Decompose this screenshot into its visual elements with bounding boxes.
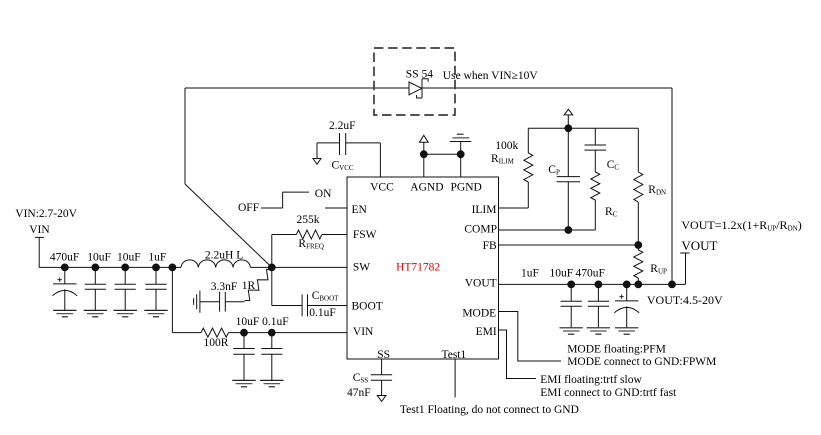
ground bbox=[260, 380, 283, 386]
svg-text:VIN: VIN bbox=[29, 224, 50, 236]
wire lower-left branch vertical bbox=[171, 267, 173, 332]
wire VOUT rail bbox=[499, 283, 686, 285]
wire PGND stub bbox=[460, 142, 462, 178]
wire top rail right of diode bbox=[422, 87, 672, 89]
terminal VOUT bbox=[680, 253, 689, 284]
svg-text:1uF: 1uF bbox=[148, 251, 166, 263]
node VOUT rail 3 bbox=[623, 281, 630, 288]
wire FSW pin stub bbox=[322, 234, 347, 236]
ground bbox=[232, 380, 255, 386]
svg-text:VOUT: VOUT bbox=[465, 278, 497, 290]
svg-text:OFF: OFF bbox=[238, 202, 259, 214]
node VOUT rail 2 bbox=[595, 281, 602, 288]
svg-text:100R: 100R bbox=[204, 337, 229, 349]
wire lower rail left bbox=[172, 332, 201, 334]
ground bbox=[587, 328, 610, 334]
resistor RILIM 100k bbox=[524, 128, 533, 208]
wire top rail left of diode bbox=[185, 87, 409, 89]
wire diagonal to SW node bbox=[185, 184, 272, 267]
svg-text:47nF: 47nF bbox=[347, 387, 371, 399]
capacitor C10 470uF output electrolytic bbox=[614, 284, 639, 327]
svg-text:VOUT=1.2x(1+RUP/RDN): VOUT=1.2x(1+RUP/RDN) bbox=[681, 218, 801, 233]
wire input rail bbox=[39, 266, 181, 268]
wire AGND-PGND link bbox=[424, 153, 461, 155]
wire AGND stub bbox=[423, 154, 425, 177]
svg-text:SS 54: SS 54 bbox=[406, 68, 433, 80]
svg-text:1uF: 1uF bbox=[521, 268, 539, 280]
svg-text:1R: 1R bbox=[242, 280, 256, 292]
svg-text:SW: SW bbox=[353, 261, 370, 273]
node VIN filter 2 bbox=[268, 329, 275, 336]
svg-text:ON: ON bbox=[315, 188, 332, 200]
node FB bbox=[635, 242, 642, 249]
capacitor C4 1uF bbox=[145, 267, 166, 310]
node input rail junction 1 bbox=[61, 264, 68, 271]
diode D1 SS54 schottky bbox=[409, 79, 428, 98]
svg-text:10uF 0.1uF: 10uF 0.1uF bbox=[236, 316, 289, 328]
capacitor CSS 47nF bbox=[371, 375, 392, 396]
node VIN filter 1 bbox=[241, 329, 248, 336]
wire SW rail bbox=[250, 266, 347, 268]
node COMP-CP bbox=[565, 227, 572, 234]
svg-text:0.1uF: 0.1uF bbox=[309, 307, 336, 319]
IC U1 HT71782 body bbox=[347, 177, 499, 359]
wire FB pin bbox=[499, 244, 639, 246]
svg-text:FSW: FSW bbox=[353, 229, 377, 241]
ground bbox=[615, 328, 638, 334]
svg-text:255k: 255k bbox=[297, 214, 320, 226]
svg-text:EMI connect to GND:trtf fast: EMI connect to GND:trtf fast bbox=[540, 387, 677, 399]
ground bbox=[84, 310, 107, 316]
wire COMP pin bbox=[499, 229, 596, 231]
node VOUT sense bbox=[565, 125, 572, 132]
svg-text:MODE: MODE bbox=[462, 307, 496, 319]
resistor R2 1R snubber bbox=[245, 269, 272, 300]
svg-text:3.3nF: 3.3nF bbox=[211, 281, 238, 293]
capacitor C8 1uF output bbox=[561, 284, 582, 327]
wire Testl stub bbox=[454, 359, 456, 397]
wire SS stub bbox=[381, 359, 383, 375]
svg-text:ILIM: ILIM bbox=[472, 204, 497, 216]
node VOUT rail 1 bbox=[568, 281, 575, 288]
svg-text:2.2uF: 2.2uF bbox=[329, 120, 356, 132]
ground sideways (snubber) bbox=[194, 291, 200, 313]
VIN terminal bbox=[35, 237, 44, 267]
svg-text:Test1 Floating, do not connect: Test1 Floating, do not connect to GND bbox=[400, 404, 579, 416]
svg-text:VCC: VCC bbox=[370, 181, 394, 193]
svg-text:EMI: EMI bbox=[476, 326, 497, 338]
node RUP bottom bbox=[635, 281, 642, 288]
capacitor C2 10uF bbox=[85, 267, 106, 310]
svg-text:100k: 100k bbox=[495, 140, 518, 152]
svg-text:VIN: VIN bbox=[353, 326, 374, 338]
svg-text:10uF: 10uF bbox=[550, 268, 574, 280]
svg-text:10uF: 10uF bbox=[117, 251, 141, 263]
node input rail junction 4 bbox=[153, 264, 160, 271]
svg-text:10uF: 10uF bbox=[87, 251, 111, 263]
node inductor input bbox=[169, 264, 176, 271]
svg-text:SS: SS bbox=[377, 349, 390, 361]
arrow up (VOUT sense) bbox=[564, 109, 573, 128]
arrow down (SS) bbox=[377, 396, 386, 402]
node PGND bbox=[457, 151, 464, 158]
capacitor C3 10uF bbox=[115, 267, 136, 310]
svg-text:Test1: Test1 bbox=[442, 349, 467, 361]
ground bbox=[53, 310, 76, 316]
resistor RC bbox=[591, 172, 600, 230]
wire top-right vertical to VOUT rail bbox=[671, 88, 673, 284]
svg-text:COMP: COMP bbox=[464, 223, 497, 235]
wire FSW-SW-BOOT vertical bbox=[271, 235, 273, 306]
svg-text:VOUT: VOUT bbox=[681, 238, 717, 253]
ground arrow (CVCC) bbox=[313, 143, 321, 164]
capacitor C5 10uF VIN filter bbox=[233, 333, 254, 381]
capacitor C1 470uF input electrolytic bbox=[52, 267, 77, 310]
earth symbol (PGND) bbox=[450, 134, 471, 141]
svg-text:EN: EN bbox=[352, 204, 368, 216]
svg-text:470uF: 470uF bbox=[50, 251, 79, 263]
capacitor C7 3.3nF snubber bbox=[200, 292, 245, 312]
capacitor CBOOT 0.1uF bbox=[272, 294, 347, 316]
node input rail junction 3 bbox=[122, 264, 129, 271]
capacitor CP bbox=[557, 128, 580, 230]
resistor R1 100R bbox=[201, 328, 229, 337]
wire MODE bbox=[499, 312, 562, 362]
svg-text:HT71782: HT71782 bbox=[396, 261, 440, 273]
svg-text:470uF: 470uF bbox=[576, 268, 605, 280]
svg-text:MODE connect to GND:FPWM: MODE connect to GND:FPWM bbox=[567, 356, 716, 368]
svg-text:VIN:2.7-20V: VIN:2.7-20V bbox=[15, 208, 77, 220]
wire FSW to vertical bbox=[272, 234, 297, 236]
wire EMI bbox=[499, 330, 537, 379]
wire top-left vertical bbox=[184, 88, 186, 184]
svg-text:EMI floating:trtf slow: EMI floating:trtf slow bbox=[540, 374, 642, 386]
node input rail junction 2 bbox=[92, 264, 99, 271]
dashed box around optional diode bbox=[374, 48, 455, 115]
svg-text:AGND: AGND bbox=[410, 181, 443, 193]
capacitor C6 0.1uF VIN filter bbox=[261, 333, 282, 381]
node SW bbox=[268, 264, 275, 271]
wire lower rail to VIN pin bbox=[229, 332, 348, 334]
svg-text:MODE floating:PFM: MODE floating:PFM bbox=[567, 343, 666, 355]
inductor L 2.2uH bbox=[181, 260, 250, 268]
ground bbox=[114, 310, 137, 316]
switch ON/OFF bbox=[261, 192, 309, 208]
svg-text:PGND: PGND bbox=[451, 181, 482, 193]
svg-text:2.2uH L: 2.2uH L bbox=[205, 249, 243, 261]
wire EN stub bbox=[325, 207, 347, 209]
capacitor CC bbox=[585, 128, 607, 172]
wire ILIM top rail bbox=[528, 127, 638, 129]
wire VCC stub bbox=[379, 143, 381, 177]
arrow up (AGND) bbox=[419, 135, 428, 154]
svg-text:Use when VIN≥10V: Use when VIN≥10V bbox=[443, 70, 539, 82]
svg-text:BOOT: BOOT bbox=[352, 301, 383, 313]
node VOUT feed bbox=[669, 281, 676, 288]
wire ILIM pin bbox=[499, 207, 529, 209]
capacitor C9 10uF output bbox=[588, 284, 609, 327]
svg-text:FB: FB bbox=[483, 240, 497, 252]
svg-text:VOUT:4.5-20V: VOUT:4.5-20V bbox=[647, 293, 723, 307]
resistor RFREQ 255k bbox=[296, 230, 322, 239]
capacitor CVCC 2.2uF bbox=[317, 133, 380, 155]
ground bbox=[560, 328, 583, 334]
resistor RDN bbox=[634, 128, 643, 245]
resistor RUP bbox=[634, 245, 643, 284]
node AGND bbox=[420, 151, 427, 158]
ground bbox=[144, 310, 167, 316]
